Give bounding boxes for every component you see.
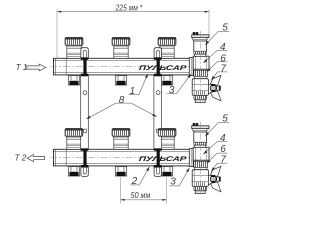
- svg-text:Т 2: Т 2: [15, 154, 27, 163]
- svg-text:1: 1: [130, 86, 136, 97]
- svg-text:4: 4: [220, 42, 226, 53]
- svg-text:3: 3: [170, 177, 176, 188]
- svg-text:8: 8: [119, 95, 125, 106]
- svg-text:4: 4: [220, 133, 226, 144]
- svg-text:2: 2: [131, 176, 138, 187]
- svg-text:6: 6: [220, 144, 226, 155]
- svg-text:7: 7: [220, 155, 226, 166]
- svg-text:7: 7: [220, 63, 226, 74]
- svg-text:5: 5: [222, 114, 228, 125]
- svg-text:Т 1: Т 1: [16, 63, 28, 72]
- svg-text:225 мм *: 225 мм *: [115, 3, 143, 12]
- svg-text:5: 5: [222, 23, 228, 34]
- svg-text:3: 3: [169, 85, 175, 96]
- svg-text:50 мм: 50 мм: [131, 190, 151, 200]
